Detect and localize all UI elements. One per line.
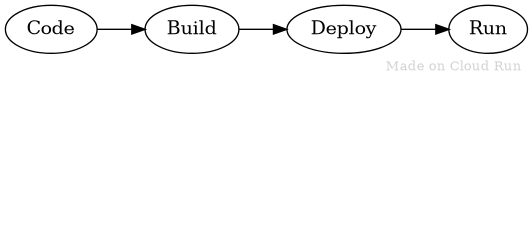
- edge Code->Build: arrowhead: [132, 25, 145, 34]
- node Build: ellipse outline: [145, 5, 239, 53]
- node Deploy: label text "Deploy": [312, 20, 377, 38]
- node Code: ellipse outline: [5, 5, 97, 53]
- node Deploy: ellipse outline: [287, 5, 401, 53]
- node Run: ellipse outline: [449, 5, 528, 53]
- node Run: label text "Run": [470, 20, 507, 34]
- edge Build->Deploy: wire (connector line): [239, 28, 273, 30]
- edge Code->Build: wire (connector line): [97, 28, 131, 30]
- edge Build->Deploy: arrowhead: [273, 25, 286, 34]
- edge Deploy->Run: arrowhead: [436, 25, 449, 34]
- graph caption text "Made on Cloud Run": [386, 60, 520, 70]
- node Build: label text "Build": [168, 20, 217, 34]
- edge Deploy->Run: wire (connector line): [401, 28, 435, 30]
- node Code: label text "Code": [28, 20, 74, 34]
